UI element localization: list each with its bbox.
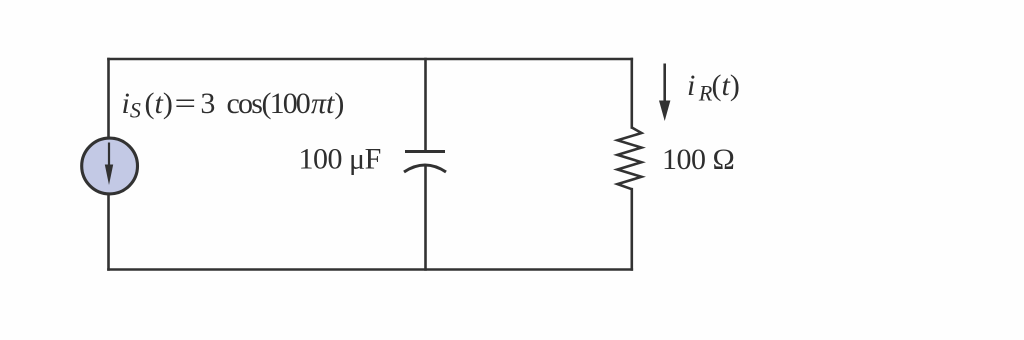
wire: left branch lower segment xyxy=(107,195,110,270)
svg-text:100 Ω: 100 Ω xyxy=(662,143,734,176)
wire: top net (source + to capacitor top to resistor top) xyxy=(109,58,632,61)
svg-text:iS(t)=3cos(100πt): iS(t)=3cos(100πt) xyxy=(122,87,345,123)
current source iS xyxy=(82,138,138,194)
resistor (100 ohm) xyxy=(618,128,642,190)
wire: right branch upper segment (to resistor) xyxy=(630,59,633,128)
wire: middle branch lower segment (from capacitor) xyxy=(424,167,427,270)
wire: bottom net (source - to capacitor bottom to resistor bottom) xyxy=(109,268,632,271)
svg-text:iR(t): iR(t) xyxy=(687,69,740,106)
current arrow iR xyxy=(659,64,670,122)
capacitor (100 uF) xyxy=(404,152,446,173)
wire: right branch lower segment (from resistor) xyxy=(630,189,633,269)
wire: middle branch upper segment (to capacitor) xyxy=(424,59,427,150)
wire: left branch upper segment xyxy=(107,59,110,137)
svg-text:100 μF: 100 μF xyxy=(299,142,381,175)
